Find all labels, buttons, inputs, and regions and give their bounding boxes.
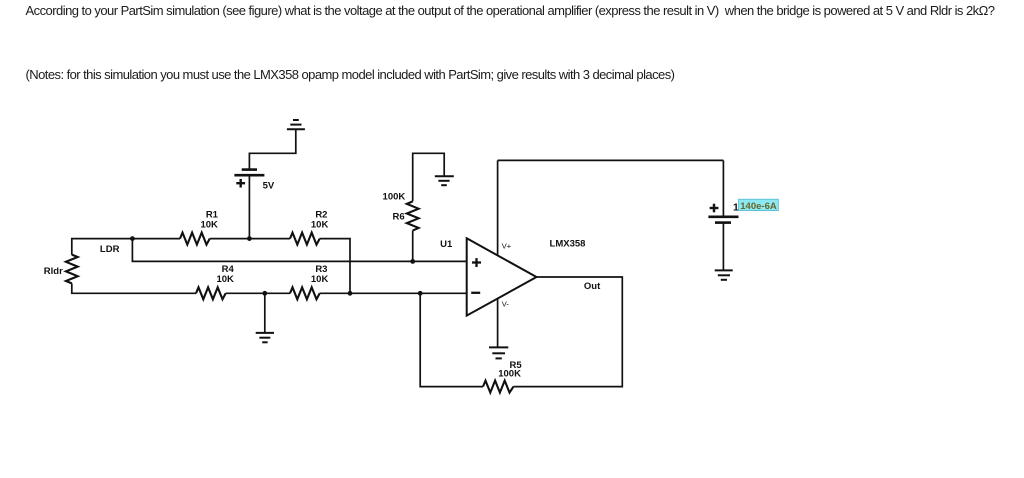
- svg-text:100K: 100K: [383, 191, 406, 202]
- op-amp U1 triangle: [467, 238, 537, 315]
- svg-text:V-: V-: [502, 299, 510, 308]
- ground: top (inverted) for 5V battery: [287, 120, 305, 129]
- resistor R5: [483, 381, 514, 393]
- resistor R4: [196, 287, 226, 299]
- node: feedback tap on row C: [418, 291, 423, 296]
- node: R6 on row B: [410, 259, 415, 264]
- svg-text:Rldr: Rldr: [44, 266, 63, 277]
- resistor R1: [180, 233, 210, 245]
- node: ground tap on row C: [262, 291, 267, 296]
- wire: battery positive lead down to row A: [248, 176, 250, 239]
- svg-text:10K: 10K: [200, 220, 218, 231]
- wire: battery negative lead up and over to ground: [249, 129, 295, 169]
- wire: battery bottom to ground: [722, 223, 724, 271]
- svg-text:10K: 10K: [311, 220, 329, 231]
- svg-text:LMX358: LMX358: [550, 239, 586, 250]
- node: 5V battery tap on row A: [247, 236, 252, 241]
- label op-amp plus input: [472, 258, 481, 267]
- node: R2/R3 bridge output: [348, 291, 353, 296]
- label op-amp minus input: [471, 292, 480, 294]
- battery V2 (right): [708, 217, 738, 223]
- wire: R4 to R3 segment on row C: [226, 292, 290, 294]
- wire: op-amp output to right corner: [514, 277, 623, 387]
- wire: junction down to row B and right to op-amp + input: [132, 239, 466, 262]
- wire: R6 bottom to row B: [412, 231, 414, 262]
- svg-text:100K: 100K: [498, 368, 521, 379]
- wire: LDR top horizontal (row A): [72, 239, 180, 255]
- node: LDR junction on row A: [130, 236, 135, 241]
- wire: right rail down to battery: [722, 160, 724, 216]
- svg-text:10K: 10K: [311, 274, 329, 285]
- wire: R6 top hook to ground: [413, 153, 445, 201]
- annotation: highlighted current 140e-6A: [739, 199, 779, 212]
- svg-text:5V: 5V: [263, 180, 275, 191]
- wire: R5 left to feedback riser up to row C: [420, 293, 483, 386]
- wire: down from row C to ground: [264, 293, 266, 333]
- wire: V- pin down to ground: [497, 299, 499, 348]
- svg-text:R6: R6: [393, 212, 405, 223]
- ground: V- pin: [489, 347, 508, 358]
- resistor Rldr (vertical, left): [66, 255, 78, 284]
- svg-text:10K: 10K: [216, 274, 234, 285]
- resistor R3: [290, 287, 320, 299]
- wire: Rldr bottom to row C: [72, 283, 196, 293]
- resistor R2: [290, 233, 320, 245]
- svg-text:1: 1: [733, 201, 739, 213]
- svg-text:LDR: LDR: [100, 244, 120, 255]
- resistor R6 (vertical): [407, 201, 419, 230]
- ground: below R4/R3 junction: [256, 333, 274, 342]
- wire: R3 to op-amp minus input on row C: [320, 292, 467, 294]
- wire: V+ supply up to top feedback rail: [497, 160, 499, 255]
- svg-text:Out: Out: [584, 281, 601, 292]
- wire: R2 right end down to row C: [320, 239, 350, 294]
- battery V1 5V: [234, 170, 264, 176]
- label right battery plus sign: [710, 204, 719, 213]
- label battery plus sign: [236, 179, 245, 188]
- svg-text:V+: V+: [502, 242, 512, 251]
- svg-text:U1: U1: [440, 239, 453, 250]
- ground: right battery: [715, 270, 733, 279]
- ground: above R6: [435, 176, 454, 185]
- svg-text:140e-6A: 140e-6A: [740, 201, 777, 212]
- wire: R1 to R2 segment on row A: [210, 238, 290, 240]
- wire: top rail across to right battery: [498, 159, 724, 161]
